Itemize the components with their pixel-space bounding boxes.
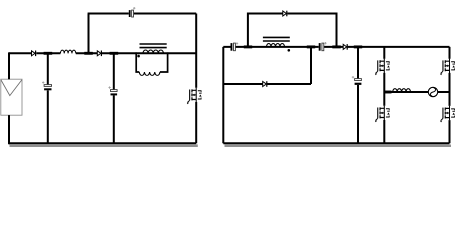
- wire: main rail left circuit: [9, 52, 196, 54]
- transformer T1: [136, 44, 167, 75]
- diode D4 (lower loop): [263, 81, 268, 87]
- AC source / grid: [428, 87, 437, 96]
- diode D1: [32, 51, 37, 57]
- wire: bottom rail right circuit: [223, 142, 449, 144]
- mosfet Q2 (upper left): [375, 59, 390, 76]
- inductor L2: [393, 89, 411, 92]
- wire: top loop right circuit: [248, 14, 337, 47]
- capacitor C2: [111, 90, 118, 96]
- wire: PV leads: [8, 52, 10, 144]
- junction: rail/C2 branch: [110, 52, 119, 55]
- wire: lower clamp loop: [223, 47, 311, 84]
- junction: rail/C1 branch: [44, 52, 53, 55]
- shadow under left circuit: [10, 144, 198, 147]
- polarity marks on electrolytic capacitors: [42, 7, 354, 89]
- wire: C1 branch: [47, 53, 49, 143]
- diode D2: [97, 51, 102, 57]
- diode D3 (top loop): [283, 11, 288, 17]
- wire: boost branch up: [88, 14, 90, 54]
- mosfet Q1: [187, 88, 202, 105]
- junction: middle/left leg: [384, 91, 391, 94]
- diode D5 (rail): [343, 44, 348, 50]
- junction: rail/boost branch: [84, 52, 93, 55]
- wire: H-bridge left leg: [383, 47, 385, 143]
- capacitor C3 (series on top loop): [129, 10, 134, 17]
- wire: dc-link branch: [357, 47, 359, 143]
- wire: right edge of left circuit: [195, 14, 197, 144]
- PV panel source: [1, 79, 22, 115]
- mosfet Q4 (lower left): [375, 106, 390, 123]
- junction: rail/dc-link: [354, 45, 362, 48]
- wire: bottom rail left circuit: [9, 142, 196, 144]
- wire: rail right circuit: [223, 46, 449, 48]
- inductor L1: [60, 50, 75, 53]
- capacitor C5 (series on rail): [319, 43, 324, 51]
- junction: rail/lower loop right: [307, 45, 315, 48]
- mosfet Q5 (lower right): [440, 106, 455, 123]
- wire: H-bridge right leg: [449, 47, 451, 143]
- junction: rail/top loop right: [332, 45, 341, 48]
- wire: C2 branch: [113, 53, 115, 143]
- capacitor C1: [44, 85, 51, 91]
- wire: top loop: [88, 13, 197, 15]
- junction: rail/top loop left: [244, 45, 252, 48]
- capacitor C4 (series input): [231, 43, 236, 51]
- wire: bridge middle: [384, 91, 449, 93]
- capacitor C6 (dc-link): [355, 79, 362, 85]
- wire: left edge right circuit: [222, 47, 224, 143]
- mosfet Q3 (upper right): [440, 59, 455, 76]
- transformer T2: [263, 37, 290, 51]
- shadow under right circuit: [225, 145, 452, 148]
